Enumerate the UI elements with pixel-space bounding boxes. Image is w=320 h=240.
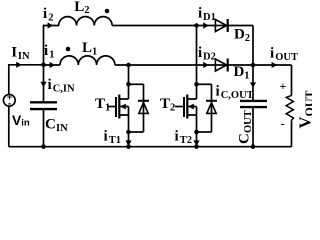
svg-text:C,OUT: C,OUT bbox=[221, 90, 254, 101]
svg-text:i: i bbox=[198, 45, 202, 61]
svg-text:OUT: OUT bbox=[302, 90, 312, 116]
svg-text:I: I bbox=[11, 45, 17, 61]
svg-text:D2: D2 bbox=[203, 52, 216, 63]
svg-text:-: - bbox=[281, 116, 285, 131]
svg-text:i: i bbox=[43, 6, 47, 22]
svg-text:T: T bbox=[95, 96, 105, 112]
svg-text:1: 1 bbox=[92, 46, 97, 57]
svg-text:D: D bbox=[234, 27, 245, 43]
svg-text:2: 2 bbox=[84, 5, 89, 16]
svg-text:i: i bbox=[198, 6, 202, 22]
svg-text:L: L bbox=[82, 40, 92, 56]
svg-text:1: 1 bbox=[105, 103, 110, 114]
svg-text:in: in bbox=[21, 117, 30, 128]
svg-text:i: i bbox=[175, 129, 179, 145]
svg-text:IN: IN bbox=[18, 51, 30, 62]
svg-text:IN: IN bbox=[56, 123, 68, 134]
svg-text:-: - bbox=[8, 99, 11, 110]
svg-text:i: i bbox=[104, 129, 108, 145]
svg-text:i: i bbox=[48, 77, 52, 93]
svg-text:L: L bbox=[74, 0, 84, 15]
svg-text:i: i bbox=[270, 46, 274, 62]
svg-text:OUT: OUT bbox=[275, 52, 298, 63]
svg-text:D1: D1 bbox=[203, 12, 216, 23]
svg-text:i: i bbox=[216, 84, 220, 100]
svg-text:2: 2 bbox=[48, 13, 53, 24]
svg-text:OUT: OUT bbox=[243, 110, 254, 133]
svg-text:T: T bbox=[160, 96, 170, 112]
svg-text:+: + bbox=[280, 79, 287, 93]
svg-text:T1: T1 bbox=[109, 135, 121, 146]
svg-text:2: 2 bbox=[170, 103, 175, 114]
svg-text:i: i bbox=[44, 43, 48, 59]
svg-text:V: V bbox=[296, 117, 313, 129]
svg-text:2: 2 bbox=[245, 33, 250, 44]
svg-text:1: 1 bbox=[49, 49, 54, 60]
svg-text:1: 1 bbox=[244, 71, 249, 82]
svg-text:D: D bbox=[234, 64, 245, 80]
svg-text:C,IN: C,IN bbox=[53, 84, 75, 95]
svg-text:C: C bbox=[237, 133, 253, 144]
svg-text:C: C bbox=[45, 116, 56, 132]
svg-text:T2: T2 bbox=[180, 135, 192, 146]
